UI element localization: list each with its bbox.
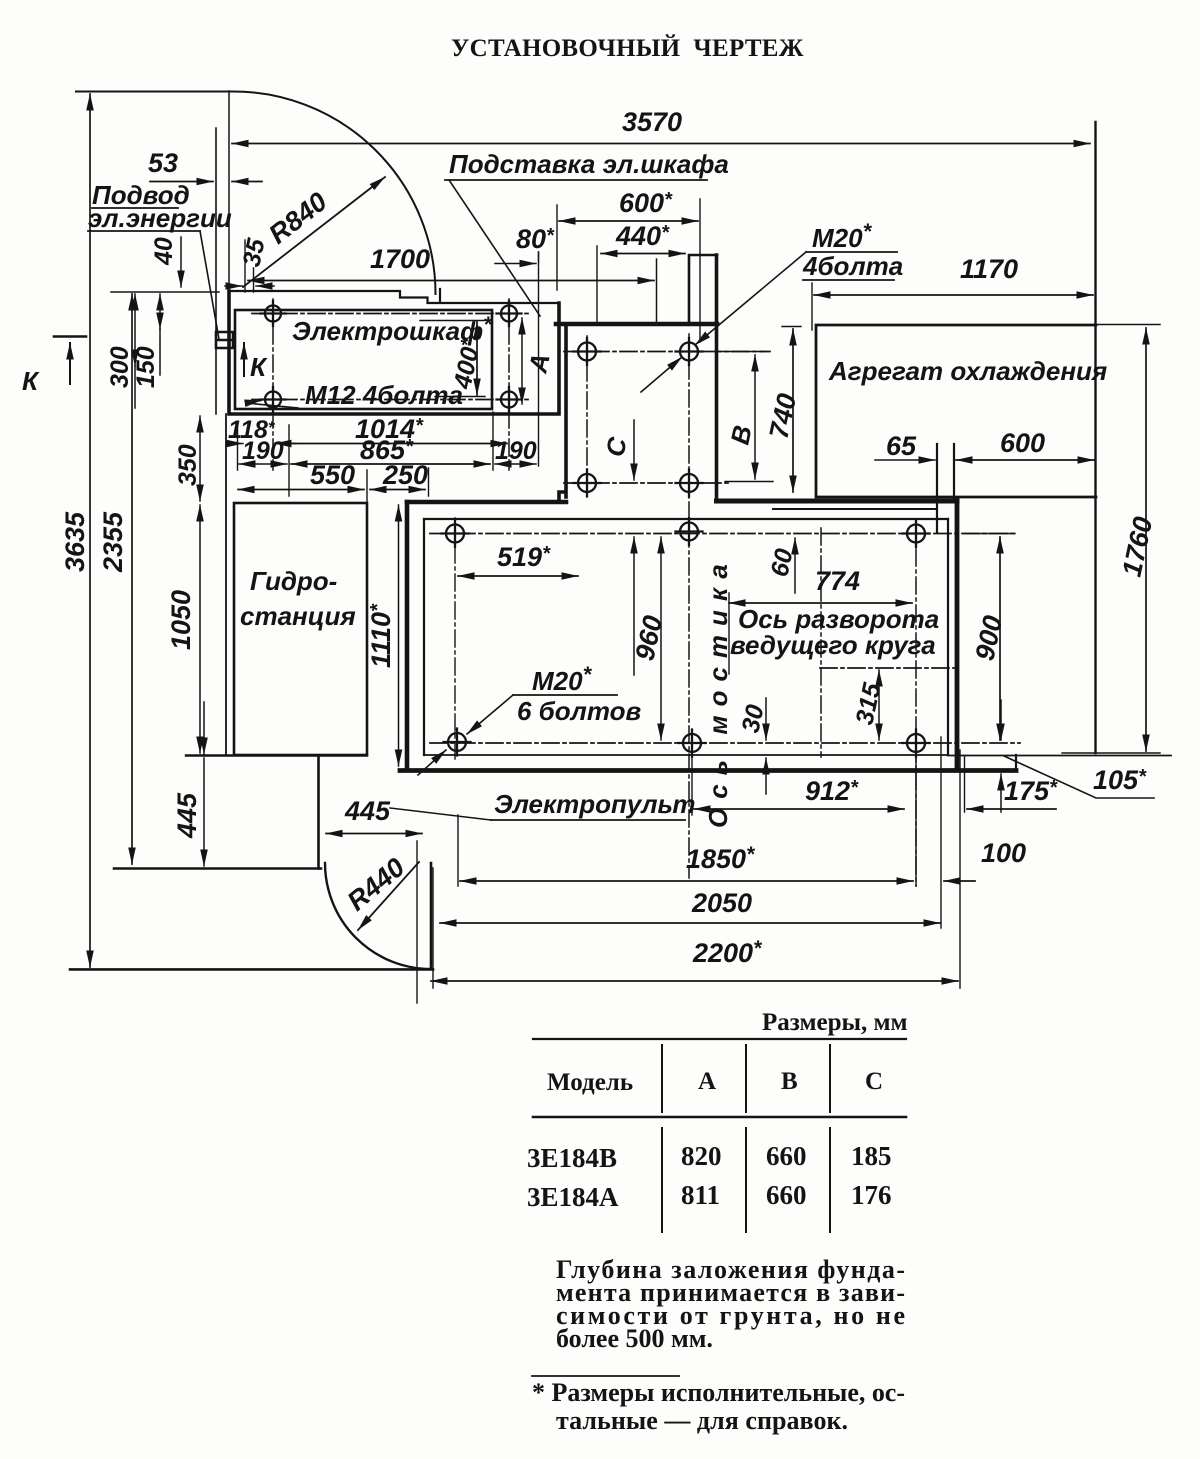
svg-text:2355: 2355 [98,511,128,573]
centerline col x916 [915,521,917,886]
outline: big plate top edge right part [717,499,958,504]
svg-text:175*: 175* [1004,776,1058,806]
outline: big plate top edge left part [407,500,566,505]
ext x229 top [228,91,230,291]
outline: plate inner bottom + right extension line [424,754,1171,757]
svg-text:3Е184А: 3Е184А [527,1182,619,1212]
dim 118 [226,443,243,445]
svg-text:105*: 105* [1093,765,1147,795]
dim 1760 [1145,328,1147,751]
dim 960 [660,537,662,740]
dim 550 [238,489,364,491]
outline: stand rectangle [229,291,559,414]
svg-text:30: 30 [736,702,769,735]
svg-text:1050: 1050 [166,590,196,650]
dim 65 [875,459,935,461]
dim 315 [878,670,880,740]
svg-text:80*: 80* [516,224,555,254]
dim 445 right [326,833,422,835]
outline: electropult tab edge [1015,755,1017,770]
svg-text:100: 100 [981,838,1026,868]
outline: plate inner left/right [424,519,948,755]
svg-text:550: 550 [310,460,355,490]
svg-text:М20*: М20* [532,662,593,696]
svg-text:К: К [22,366,40,396]
dim 30 [765,698,767,740]
table body separators [662,1128,830,1232]
ext lines under stand [238,205,558,508]
dim 80 [495,263,536,265]
svg-text:900: 900 [970,613,1009,663]
R440 radius arrow [358,862,419,930]
svg-text:300: 300 [106,346,134,388]
svg-text:С: С [600,433,634,459]
outline: cooling front lower edge [773,508,937,510]
svg-text:С: С [865,1068,883,1095]
svg-text:6 болтов: 6 болтов [517,696,641,726]
leader 105 [1004,756,1154,798]
K section marker left [54,335,86,338]
svg-text:2200*: 2200* [692,937,762,968]
outline: power entry left vertical [215,128,217,414]
svg-text:185: 185 [851,1141,892,1171]
dim 912 [694,808,904,810]
dim 400 cabinet [476,322,478,395]
R440 corner vertical [430,863,433,967]
svg-text:тальные — для справок.: тальные — для справок. [556,1406,848,1435]
dim 740 [792,329,794,492]
R440 arc [325,863,431,969]
table header separators [662,1045,830,1112]
svg-text:190: 190 [242,437,284,465]
svg-text:190: 190 [495,437,537,465]
centerline col x509 [508,299,510,470]
bolt M20x4 group [574,338,703,497]
svg-text:В: В [725,423,758,448]
outline: foundation step bottom y755 [186,754,367,756]
centerline row E [430,533,1015,535]
dim 1700 [248,280,654,282]
dim C small [633,420,635,480]
svg-text:1850*: 1850* [686,843,755,874]
dim A [521,318,523,404]
svg-text:М20*: М20* [812,219,873,253]
svg-text:250: 250 [382,460,428,490]
svg-text:350: 350 [174,444,202,486]
svg-text:445: 445 [344,796,391,826]
svg-text:53: 53 [148,148,178,178]
svg-text:R840: R840 [263,186,332,249]
dim 519 [458,575,578,577]
dim 1110 [398,505,400,766]
outline: stand (podstavka) top edge [229,289,559,303]
svg-text:К: К [250,352,268,382]
centerline wheel axis [820,667,958,669]
svg-text:Ось мостика: Ось мостика [703,555,733,828]
svg-text:1760: 1760 [1117,514,1159,579]
svg-text:4болта: 4болта [802,251,903,281]
svg-text:600: 600 [1000,428,1045,458]
centerline col x821 [820,528,822,757]
centerline row A [252,313,530,315]
centerline col x587 [586,336,588,497]
svg-text:35: 35 [237,235,270,269]
outline: electro-cabinet inner rect [235,310,492,409]
svg-text:Подставка эл.шкафа: Подставка эл.шкафа [449,149,729,179]
outline: upper plate top edge [556,322,717,327]
svg-text:1110*: 1110* [366,603,396,668]
svg-text:445: 445 [172,792,202,839]
table top rule [533,1038,906,1040]
dim 175 [967,808,1056,810]
dim 445 left [203,702,205,754]
outline: plate inner top line [424,518,948,520]
dim 1014 [275,443,507,445]
ext lines 600/440 [539,199,701,342]
svg-text:60: 60 [765,546,798,579]
outline: cooling slot verticals 65 [937,444,954,533]
dim 350 [199,416,201,501]
dim 150 [159,294,161,329]
svg-text:1170: 1170 [960,254,1018,284]
dim 600 cooling [956,459,1094,461]
svg-text:ведущего круга: ведущего круга [730,630,936,660]
svg-text:* Размеры исполнительные, ос: * Размеры исполнительные, ос- [532,1378,905,1407]
outline: foundation step vertical x319 [317,756,320,869]
svg-text:Электропульт: Электропульт [494,789,695,819]
dim 1850 [460,880,913,882]
dim 3570 top [232,143,1090,145]
svg-text:Гидро-: Гидро- [250,566,337,596]
svg-text:более 500 мм.: более 500 мм. [556,1324,713,1353]
dim 35 [225,285,242,287]
ext verticals bottom [417,737,965,1003]
outline: cooling unit rect [816,325,1096,497]
dim 600 [559,220,698,222]
centerline row B [252,399,530,401]
outline: hydro station rect [234,503,367,755]
table header rule [533,1116,906,1119]
R840 arc [230,91,436,294]
svg-text:Размеры, мм: Размеры, мм [762,1009,908,1036]
outline: cabinet right sub-plate line [491,310,493,409]
dim 100 [944,880,975,882]
outline: big plate bottom edge [400,768,1016,773]
dim 2050 [440,922,940,924]
svg-text:820: 820 [681,1141,722,1171]
dim 60 [794,538,796,593]
ext tick y292 [111,291,219,293]
outline: foundation step y868 [114,867,321,870]
dim 865 [291,463,490,465]
dim B [754,355,756,479]
svg-text:150: 150 [132,346,160,388]
svg-text:УСТАНОВОЧНЫЙ ЧЕРТЕЖ: УСТАНОВОЧНЫЙ ЧЕРТЕЖ [451,34,805,62]
svg-text:912*: 912* [805,776,859,806]
dim 2200 [431,980,958,982]
svg-text:станция: станция [240,601,356,631]
svg-text:600*: 600* [619,188,673,218]
dim 1050 [199,505,201,753]
R840 radius arrow [243,177,385,287]
outline: plate right upper edge [715,255,719,501]
dim 440 [601,253,685,255]
dim 300 [134,294,136,366]
svg-text:В: В [781,1068,798,1095]
outline: foundation bottom line [70,968,433,971]
dim 3635 left [89,94,91,967]
svg-text:440*: 440* [615,221,670,251]
dim 900 [999,537,1001,740]
svg-text:774: 774 [815,566,860,596]
outline: big plate left edge [405,502,410,770]
leader M20 to bolt [695,252,806,345]
dim 190 right [495,463,536,465]
outline: machine right edge [1094,122,1096,753]
svg-text:960: 960 [630,613,669,663]
svg-text:660: 660 [766,1180,807,1210]
svg-text:3635: 3635 [60,511,90,572]
svg-text:1700: 1700 [370,244,430,274]
svg-text:2050: 2050 [691,888,752,918]
centerline row D [564,482,732,484]
centerline row C [564,351,770,353]
svg-text:40: 40 [150,237,178,266]
svg-text:Модель: Модель [547,1069,633,1096]
dim 2355 left [131,294,133,864]
outline: foundation left edge under stand [225,414,227,755]
svg-text:519*: 519* [497,542,551,572]
ext x657 [656,259,658,322]
centerline col x689 (bridge axis) [688,334,690,878]
svg-text:3Е184В: 3Е184В [527,1143,617,1173]
outline: power entry connector box [216,332,233,348]
outline: top boundary line [76,91,230,93]
svg-text:740: 740 [764,391,803,441]
outline: cabinet post rect [689,255,717,322]
dim 40 [180,237,182,287]
outline: big plate right edge [955,499,960,770]
svg-text:3570: 3570 [622,107,682,137]
svg-text:А: А [698,1068,716,1095]
centerline col x273 [272,299,274,470]
svg-text:М12 4болта: М12 4болта [305,380,463,410]
dim 250 [370,489,425,491]
svg-text:Агрегат охлаждения: Агрегат охлаждения [828,356,1107,386]
bolt M20x6 group [442,518,930,757]
outline: upper plate left edge [559,327,566,502]
svg-text:65: 65 [886,431,917,461]
centerline row F [430,742,1020,744]
svg-text:315: 315 [850,680,886,728]
svg-text:176: 176 [851,1180,892,1210]
K section marker right [243,343,245,376]
dim 53 [150,181,213,183]
dim 774 [729,602,912,604]
dim 1170 [814,294,1093,296]
svg-text:811: 811 [681,1180,720,1210]
bolt M12 group [261,301,522,412]
svg-text:660: 660 [766,1141,807,1171]
dim 190 left [239,463,287,465]
